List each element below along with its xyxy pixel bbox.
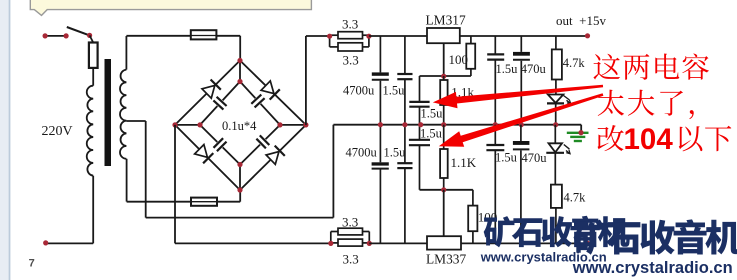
capacitor C3 (snubber bottom-left 0.1u) [214, 138, 227, 151]
label 3.3 below pair [343, 52, 359, 67]
bridge rectifier outer diamond wires [175, 61, 306, 191]
wire secondary bottom to bridge (lower AC) [127, 190, 241, 202]
svg-text:3.3: 3.3 [343, 52, 359, 67]
node rail-R7R8 right [367, 241, 372, 246]
resistor R10 4.7k (bottom) [551, 185, 562, 244]
watermark logo 2 [574, 219, 737, 254]
label 470u out+ [521, 62, 547, 76]
node bridge inner right [277, 122, 282, 127]
svg-text:3.3: 3.3 [342, 214, 358, 229]
wire bottom rail LM337 out to -15v terminal [461, 242, 588, 244]
regulator U2 LM337 [427, 236, 461, 249]
node: AC input bottom terminal [43, 240, 48, 245]
annotation text line 2 [598, 90, 694, 119]
node: switch right contact [87, 33, 92, 38]
label 1.5u out- [495, 150, 518, 164]
node ground-R4R5 [441, 122, 446, 127]
svg-text:4.7k: 4.7k [564, 191, 587, 205]
capacitor C13 1.5u (out-) [486, 125, 504, 244]
svg-text:100: 100 [449, 52, 469, 67]
node ground-C5C10 [418, 122, 423, 127]
resistor R1 R2 parallel pair 3.3 (top) [330, 32, 369, 51]
label 100 bottom [478, 210, 498, 225]
wire secondary top lead [125, 36, 127, 70]
bridge rectifier inner diamond wires (snubber ring) [200, 82, 280, 165]
svg-text:0.1u*4: 0.1u*4 [222, 119, 257, 133]
annotation text line 1 [593, 54, 708, 80]
label 4700u bottom [346, 145, 378, 159]
node bridge inner top [237, 79, 242, 84]
node: switch input terminal [43, 33, 48, 38]
ground symbol (green) [567, 133, 589, 141]
node rail-R1R2 right [366, 34, 371, 39]
LED2 (negative indicator) [546, 125, 570, 185]
svg-text:LM337: LM337 [426, 252, 466, 267]
diode D1 (bridge top-left) [202, 80, 221, 99]
svg-text:4.7k: 4.7k [563, 56, 586, 70]
wire fuse F1 to primary winding [92, 68, 94, 86]
node bridge outer right [303, 122, 308, 127]
svg-text:7: 7 [29, 257, 35, 269]
label 0.1u*4 [222, 119, 257, 133]
capacitor C4 (snubber bottom-right 0.1u) [256, 135, 269, 148]
fuse F3 (secondary lower) [191, 198, 217, 206]
label 1.5u bottom-left [384, 145, 407, 159]
node LM317 adj [441, 74, 446, 79]
annotation text line 3 [598, 123, 732, 156]
wire ground rail (center tap line) [333, 125, 581, 133]
wire secondary top to bridge (upper AC) [126, 36, 240, 61]
wire bridge stubs outer-inner [175, 61, 306, 191]
label 1.5u adj bottom [420, 127, 443, 141]
wire secondary bottom lead [126, 159, 128, 202]
capacitor C9 1.5u (negative filter) [397, 125, 412, 244]
capacitor C7 1.5u (positive filter) [397, 36, 412, 125]
tooltip callout box top [30, 0, 311, 15]
left sidebar strip [0, 0, 10, 280]
svg-text:470u: 470u [521, 62, 547, 76]
label 4700u top [343, 83, 375, 97]
watermark logo 1 [484, 216, 630, 248]
label 100 top [449, 52, 469, 67]
svg-text:3.3: 3.3 [343, 252, 359, 267]
label 470u out- [522, 151, 548, 165]
svg-text:1.5u: 1.5u [495, 150, 518, 164]
node bridge inner left [197, 122, 202, 127]
wire bridge plus to top rail [306, 36, 330, 125]
label 4.7k bottom [564, 191, 587, 205]
regulator U1 LM317 [427, 28, 460, 43]
label 3.3 top [342, 16, 358, 31]
node ground-C12 [519, 122, 524, 127]
transformer T1 core [105, 59, 112, 166]
svg-text:1.1K: 1.1K [451, 155, 477, 170]
wire primary bottom [46, 176, 93, 244]
transformer T1 secondary winding [120, 70, 126, 159]
node bridge outer top [237, 58, 242, 63]
transformer T1 primary winding [87, 86, 93, 176]
label 220V [42, 124, 73, 139]
resistor R7 R8 parallel pair 3.3 (bottom) [331, 228, 370, 246]
watermark url 1 [480, 249, 607, 264]
node ground symbol junction [578, 130, 583, 135]
label 1.5u out+ [496, 62, 519, 76]
node ground-C7 [402, 122, 407, 127]
capacitor C12 470u (out+) [513, 36, 530, 125]
wire secondary center tap to ground link [126, 121, 333, 218]
node out +15v terminal [585, 33, 590, 38]
svg-text:4700u: 4700u [346, 145, 378, 159]
label 1.5u adj top [421, 106, 444, 120]
capacitor C14 470u (out-) [513, 125, 530, 244]
label 3.3 below bottom pair [343, 252, 359, 267]
wire LM337 adj node horizontal [420, 189, 473, 191]
watermark url 2 [572, 259, 733, 277]
wire bridge minus down and bottom rail [175, 125, 331, 243]
wire adj node horizontal [420, 75, 471, 77]
label LM337 [426, 252, 466, 267]
wire switch to fuse F1 [90, 35, 94, 42]
svg-text:1.5u: 1.5u [383, 84, 406, 98]
node rail-R7R8 left [328, 241, 333, 246]
svg-text:4700u: 4700u [343, 83, 375, 97]
annotation arrow 2 (to C10) [439, 93, 604, 147]
svg-text:out +15v: out +15v [556, 13, 606, 28]
fuse F1 (primary) [89, 43, 98, 68]
fuse F2 (secondary upper) [191, 30, 217, 39]
svg-text:3.3: 3.3 [342, 16, 358, 31]
resistor R9 4.7k (top) [552, 36, 562, 94]
svg-text:1.5u: 1.5u [496, 62, 519, 76]
wire LM317 adj pin down [443, 43, 445, 76]
label 3.3 above bottom pair [342, 214, 358, 229]
resistor R4 1.1k (top) [440, 76, 447, 125]
diode D2 (bridge top-right) [261, 81, 280, 100]
label 1.1k [451, 85, 474, 100]
node LM337 adj [441, 187, 446, 192]
LED1 (positive indicator) [547, 95, 571, 125]
diode D3 (bridge bottom-left) [195, 145, 214, 164]
label out +15v [556, 13, 606, 28]
label 1.5u top-left [383, 84, 406, 98]
capacitor C1 (snubber top-left 0.1u) [213, 97, 226, 110]
wire top rail LM317 out to +15v terminal [460, 35, 588, 37]
node: switch left contact [64, 33, 69, 38]
diode D4 (bridge bottom-right) [266, 146, 285, 165]
node out -15v terminal [585, 241, 590, 246]
label 1.1K [451, 155, 477, 170]
label LM317 [426, 13, 466, 28]
wire AC input top [45, 35, 66, 37]
svg-text:470u: 470u [522, 151, 548, 165]
node bridge inner bottom [237, 162, 242, 167]
switch S1 arm (open) [67, 27, 90, 35]
node ground-LED [553, 122, 558, 127]
svg-text:220V: 220V [42, 124, 73, 139]
node bridge outer left [172, 122, 177, 127]
wire top rail to LM317 [369, 35, 427, 37]
node rail-R1R2 left [327, 34, 332, 39]
capacitor C8 4700u (negative filter) [372, 125, 389, 244]
svg-text:1.5u: 1.5u [421, 106, 444, 120]
resistor R3 100 (top) [466, 36, 475, 76]
small gray glyph bottom-left [29, 257, 35, 269]
svg-text:1.5u: 1.5u [420, 127, 443, 141]
node ground-C11 [493, 122, 498, 127]
annotation arrow 1 (to C5) [433, 85, 603, 109]
capacitor C5 1.5u (LM317 adj bypass) [409, 76, 429, 125]
capacitor C6 4700u (positive filter) [372, 36, 389, 125]
capacitor C10 1.5u (LM337 adj bypass) [409, 125, 430, 190]
svg-text:104: 104 [624, 123, 674, 156]
capacitor C2 (snubber top-right 0.1u) [251, 95, 264, 108]
capacitor C11 1.5u (out+) [487, 36, 504, 125]
wire bottom rail to LM337 [369, 242, 427, 244]
node ground-C6 [378, 122, 383, 127]
node bridge outer bottom [237, 187, 242, 192]
resistor R6 100 (bottom) [468, 190, 477, 244]
svg-text:LM317: LM317 [426, 13, 466, 28]
svg-text:1.5u: 1.5u [384, 145, 407, 159]
resistor R5 1.1K (bottom) [440, 125, 448, 190]
svg-text:www.crystalradio.cn: www.crystalradio.cn [572, 259, 733, 277]
label 4.7k top [563, 56, 586, 70]
wire LM337 adj pin [443, 190, 445, 236]
